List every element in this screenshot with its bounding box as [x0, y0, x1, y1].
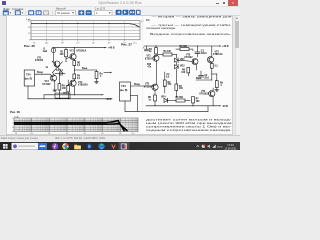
svg-text:3к: 3к — [149, 51, 152, 53]
svg-text:VD4: VD4 — [161, 95, 166, 98]
svg-text:13.08.2021: 13.08.2021 — [225, 147, 238, 150]
graph fig.34 curve — [31, 24, 140, 28]
svg-text:VD2: VD2 — [180, 66, 185, 68]
title bar — [0, 0, 240, 7]
resistor Rн — [95, 70, 103, 82]
graph fig.34 curve points — [46, 23, 138, 26]
svg-text:-40 В: -40 В — [222, 105, 228, 108]
svg-text:100: 100 — [62, 88, 67, 90]
resistor R6 — [63, 80, 70, 99]
wire R7 bottom — [65, 57, 67, 62]
svg-text:I1: I1 — [44, 48, 47, 50]
wire R7 top — [65, 48, 67, 50]
svg-text:100: 100 — [45, 42, 49, 44]
svg-text:(вн. R): (вн. R) — [120, 90, 127, 92]
page combo — [95, 11, 113, 16]
svg-text:КТ8101А: КТ8101А — [77, 49, 87, 52]
minimize — [216, 2, 219, 5]
tray network — [212, 144, 215, 147]
menu bar — [0, 7, 240, 11]
wire VT3 collector — [73, 48, 75, 54]
column separator — [142, 15, 144, 112]
graph fig.36 curve A — [14, 121, 125, 132]
svg-text:С2 0,1: С2 0,1 — [56, 70, 63, 72]
output node 2 — [196, 68, 212, 80]
svg-text:1к: 1к — [148, 100, 151, 102]
rail resistor R10 — [55, 93, 70, 98]
tray caret — [197, 145, 200, 147]
transistor VT4 r — [200, 88, 215, 106]
view buttons — [28, 10, 34, 15]
app icon — [2, 1, 6, 6]
maximize — [223, 2, 226, 5]
sep — [51, 10, 53, 15]
resistor R3 — [175, 72, 183, 97]
resistor R2 — [163, 72, 172, 93]
diode VD4 — [161, 95, 168, 102]
title text — [75, 1, 165, 5]
text column upper — [146, 15, 232, 36]
graph fig.36 frame — [14, 118, 138, 132]
svg-text:КТ3107: КТ3107 — [43, 84, 52, 86]
svg-text:R4 100: R4 100 — [164, 50, 172, 53]
diode VD1 — [175, 55, 186, 63]
graph fig.34 frame — [31, 21, 140, 40]
svg-text:Рис. 37: Рис. 37 — [121, 43, 132, 47]
sep — [25, 10, 27, 15]
transistor VT5 — [178, 54, 198, 70]
+40V rail 2 — [144, 45, 229, 48]
wire VT2 emitter down — [54, 81, 56, 90]
graph fig.36 x labels — [15, 132, 135, 135]
bottom rail A — [44, 94, 104, 95]
graph fig.34 x labels — [33, 41, 126, 44]
transistor VT2 — [43, 75, 57, 86]
svg-text:Рис. 36: Рис. 36 — [10, 110, 20, 114]
current source I1 — [43, 48, 56, 53]
svg-text:+40 В: +40 В — [222, 45, 229, 48]
resistor R6 r — [148, 90, 156, 106]
wire VT4 emitter — [73, 79, 75, 81]
ground under Rн — [95, 82, 99, 84]
svg-text:VT1: VT1 — [37, 57, 42, 59]
ground return rail — [125, 101, 208, 111]
diode VD2 — [175, 62, 186, 72]
capacitor C1 — [143, 46, 149, 51]
svg-text:47к: 47к — [148, 65, 153, 68]
node output wire — [74, 65, 97, 74]
zoom combo — [56, 11, 76, 16]
yandex icon — [52, 143, 59, 150]
svg-text:VT3: VT3 — [70, 50, 75, 52]
wire VT4 base — [66, 83, 72, 86]
svg-text:РУС: РУС — [218, 144, 223, 148]
svg-text:100: 100 — [181, 72, 186, 74]
resistor R4 — [157, 50, 176, 56]
tray speaker — [208, 144, 210, 148]
capacitor C3 — [192, 46, 207, 57]
label C1 — [46, 67, 49, 69]
svg-text:0,1: 0,1 — [215, 65, 219, 67]
toolbar — [0, 10, 240, 16]
svg-text:-4: -4 — [12, 127, 14, 129]
svg-text:VT2: VT2 — [45, 81, 50, 83]
graph fig.36 minor grid — [0, 0, 1, 1]
save button — [15, 10, 21, 15]
svg-text:0,1: 0,1 — [77, 65, 81, 67]
resistor R1 — [149, 46, 157, 55]
graph fig.34 y labels — [28, 21, 31, 42]
svg-text:лизация каскада.: лизация каскада. — [146, 26, 176, 30]
svg-text:470: 470 — [168, 83, 173, 86]
svg-text:Вход: Вход — [37, 72, 43, 74]
svg-text:КТ3107: КТ3107 — [145, 58, 154, 60]
document viewport — [0, 16, 240, 134]
resistor R7 — [60, 50, 68, 57]
app icon dark — [86, 143, 92, 149]
-40V label — [106, 98, 112, 101]
wire I1 top — [53, 47, 55, 49]
graph fig.34 ticks — [47, 40, 125, 41]
svg-text:Вых.: Вых. — [82, 67, 88, 70]
capacitor C2 r — [199, 71, 210, 80]
graph fig.36 y labels — [12, 118, 14, 133]
svg-text:-2: -2 — [12, 122, 14, 124]
svg-text:— вторая — связь смещения для: — вторая — связь смещения для — [152, 15, 233, 19]
svg-text:КТ8102А: КТ8102А — [78, 84, 88, 87]
svg-text:10³: 10³ — [76, 41, 79, 44]
transistor VT1 — [35, 57, 60, 67]
svg-text:КТ3102: КТ3102 — [185, 57, 194, 59]
svg-text:КТ3102: КТ3102 — [144, 86, 153, 88]
svg-text:R5 390: R5 390 — [180, 46, 188, 48]
svg-text:Рис. 35: Рис. 35 — [24, 44, 35, 48]
open button — [3, 10, 9, 15]
junction dots — [52, 47, 75, 99]
svg-text:VT4: VT4 — [201, 90, 206, 93]
junction dots 2 — [155, 46, 213, 107]
svg-text:-6: -6 — [12, 131, 14, 133]
transistor VT2 r — [144, 61, 158, 90]
svg-text:100: 100 — [196, 101, 201, 103]
resistor R5 — [58, 76, 66, 90]
svg-text:17:43: 17:43 — [227, 142, 234, 146]
svg-text:+40 В: +40 В — [108, 47, 115, 50]
start button — [3, 144, 8, 149]
svg-text:КТ8101А: КТ8101А — [213, 53, 223, 56]
phase arrow — [104, 72, 112, 73]
status bar — [0, 135, 240, 142]
active app button — [119, 142, 130, 151]
resistor R8 — [73, 61, 81, 67]
resistor R7 — [192, 97, 201, 106]
resistor R8 — [168, 97, 190, 102]
ground VT2 — [53, 90, 57, 92]
graph fig.36 curve B — [14, 124, 128, 131]
close button — [228, 0, 238, 6]
svg-text:0,1: 0,1 — [77, 78, 81, 80]
transistor VT3 — [70, 49, 87, 59]
svg-text:КТ8102А: КТ8102А — [200, 93, 210, 96]
text column lower — [146, 117, 232, 131]
svg-text:ГЗЧ: ГЗЧ — [121, 85, 126, 88]
resistor R12 emitter — [210, 62, 218, 68]
input wire 2 — [131, 84, 154, 111]
tray icon red — [202, 144, 205, 147]
page — [6, 15, 233, 135]
generator box 2 — [120, 82, 131, 101]
browser icon — [62, 143, 68, 149]
svg-text:Вход: Вход — [134, 84, 140, 86]
+40V rail — [53, 47, 115, 50]
svg-text:100,0: 100,0 — [201, 53, 207, 55]
zoom btns — [78, 10, 84, 15]
svg-text:0,7: 0,7 — [141, 21, 144, 23]
capacitor C4 label — [166, 73, 170, 79]
page content SVG — [0, 0, 240, 150]
svg-text:10²: 10² — [61, 41, 64, 44]
svg-text:10⁴: 10⁴ — [92, 42, 95, 44]
svg-text:ВК;: ВК; — [146, 18, 151, 22]
svg-text:4: 4 — [100, 75, 102, 78]
svg-text:(вн. R): (вн. R) — [25, 78, 32, 80]
shield icon — [110, 143, 116, 149]
globe icon — [98, 143, 104, 149]
svg-text:VT2: VT2 — [145, 84, 150, 86]
resistor R9 — [73, 74, 81, 80]
graph fig.34 grid — [31, 24, 140, 37]
svg-text:VT4: VT4 — [78, 81, 83, 84]
scrollbar — [235, 16, 240, 134]
svg-text:0: 0 — [12, 118, 13, 120]
svg-text:Входное сопротивление оказалос: Входное сопротивление оказалось- — [150, 32, 232, 36]
svg-text:+: + — [192, 49, 194, 52]
svg-text:-40 В: -40 В — [106, 98, 112, 101]
transistor VT3 r — [207, 46, 223, 63]
svg-text:ходным сопротивлением каскада.: ходным сопротивлением каскада. — [146, 128, 232, 132]
bottom rail B — [28, 90, 112, 99]
folder icon — [74, 144, 81, 149]
wire I1 to node — [53, 53, 55, 62]
taskbar — [0, 142, 240, 151]
svg-text:VT1: VT1 — [147, 56, 152, 58]
svg-text:100: 100 — [179, 88, 184, 90]
capacitor C2 — [55, 70, 65, 76]
diff pair cross wires — [53, 62, 63, 75]
nav buttons — [116, 10, 122, 15]
transistor VT1 r — [145, 55, 159, 61]
resistor Rн 2 — [212, 74, 224, 90]
svg-text:25,0: 25,0 — [204, 78, 209, 80]
search box — [12, 142, 39, 149]
resistor R9 r — [181, 68, 189, 77]
svg-text:f,Гц: f,Гц — [133, 42, 137, 44]
svg-text:Вых.: Вых. — [196, 77, 202, 80]
-40V rail 2 — [146, 105, 228, 108]
resistor R10 label — [147, 64, 152, 69]
wire VT4 collector to rail — [73, 86, 75, 95]
svg-text:1к: 1к — [46, 67, 49, 69]
svg-text:1мА: 1мА — [43, 50, 48, 53]
svg-text:КТ3102: КТ3102 — [35, 60, 44, 62]
wire VT3 emitter to R8 — [73, 59, 75, 60]
wire VT3 base — [66, 57, 72, 59]
svg-text:100: 100 — [60, 54, 65, 56]
svg-text:R8 300: R8 300 — [176, 97, 184, 99]
svg-text:10⁵: 10⁵ — [107, 42, 110, 44]
graph fig.36 major grid — [14, 118, 138, 132]
resistor R5 — [176, 46, 193, 51]
input wire — [35, 72, 52, 77]
generator box ГЗЧ — [24, 70, 35, 86]
transistor VT4 — [70, 80, 88, 87]
svg-text:ГЗЧ: ГЗЧ — [26, 73, 31, 76]
left return wire — [27, 86, 29, 99]
svg-text:0,5: 0,5 — [166, 77, 170, 79]
ground under Rн 2 — [215, 90, 219, 92]
